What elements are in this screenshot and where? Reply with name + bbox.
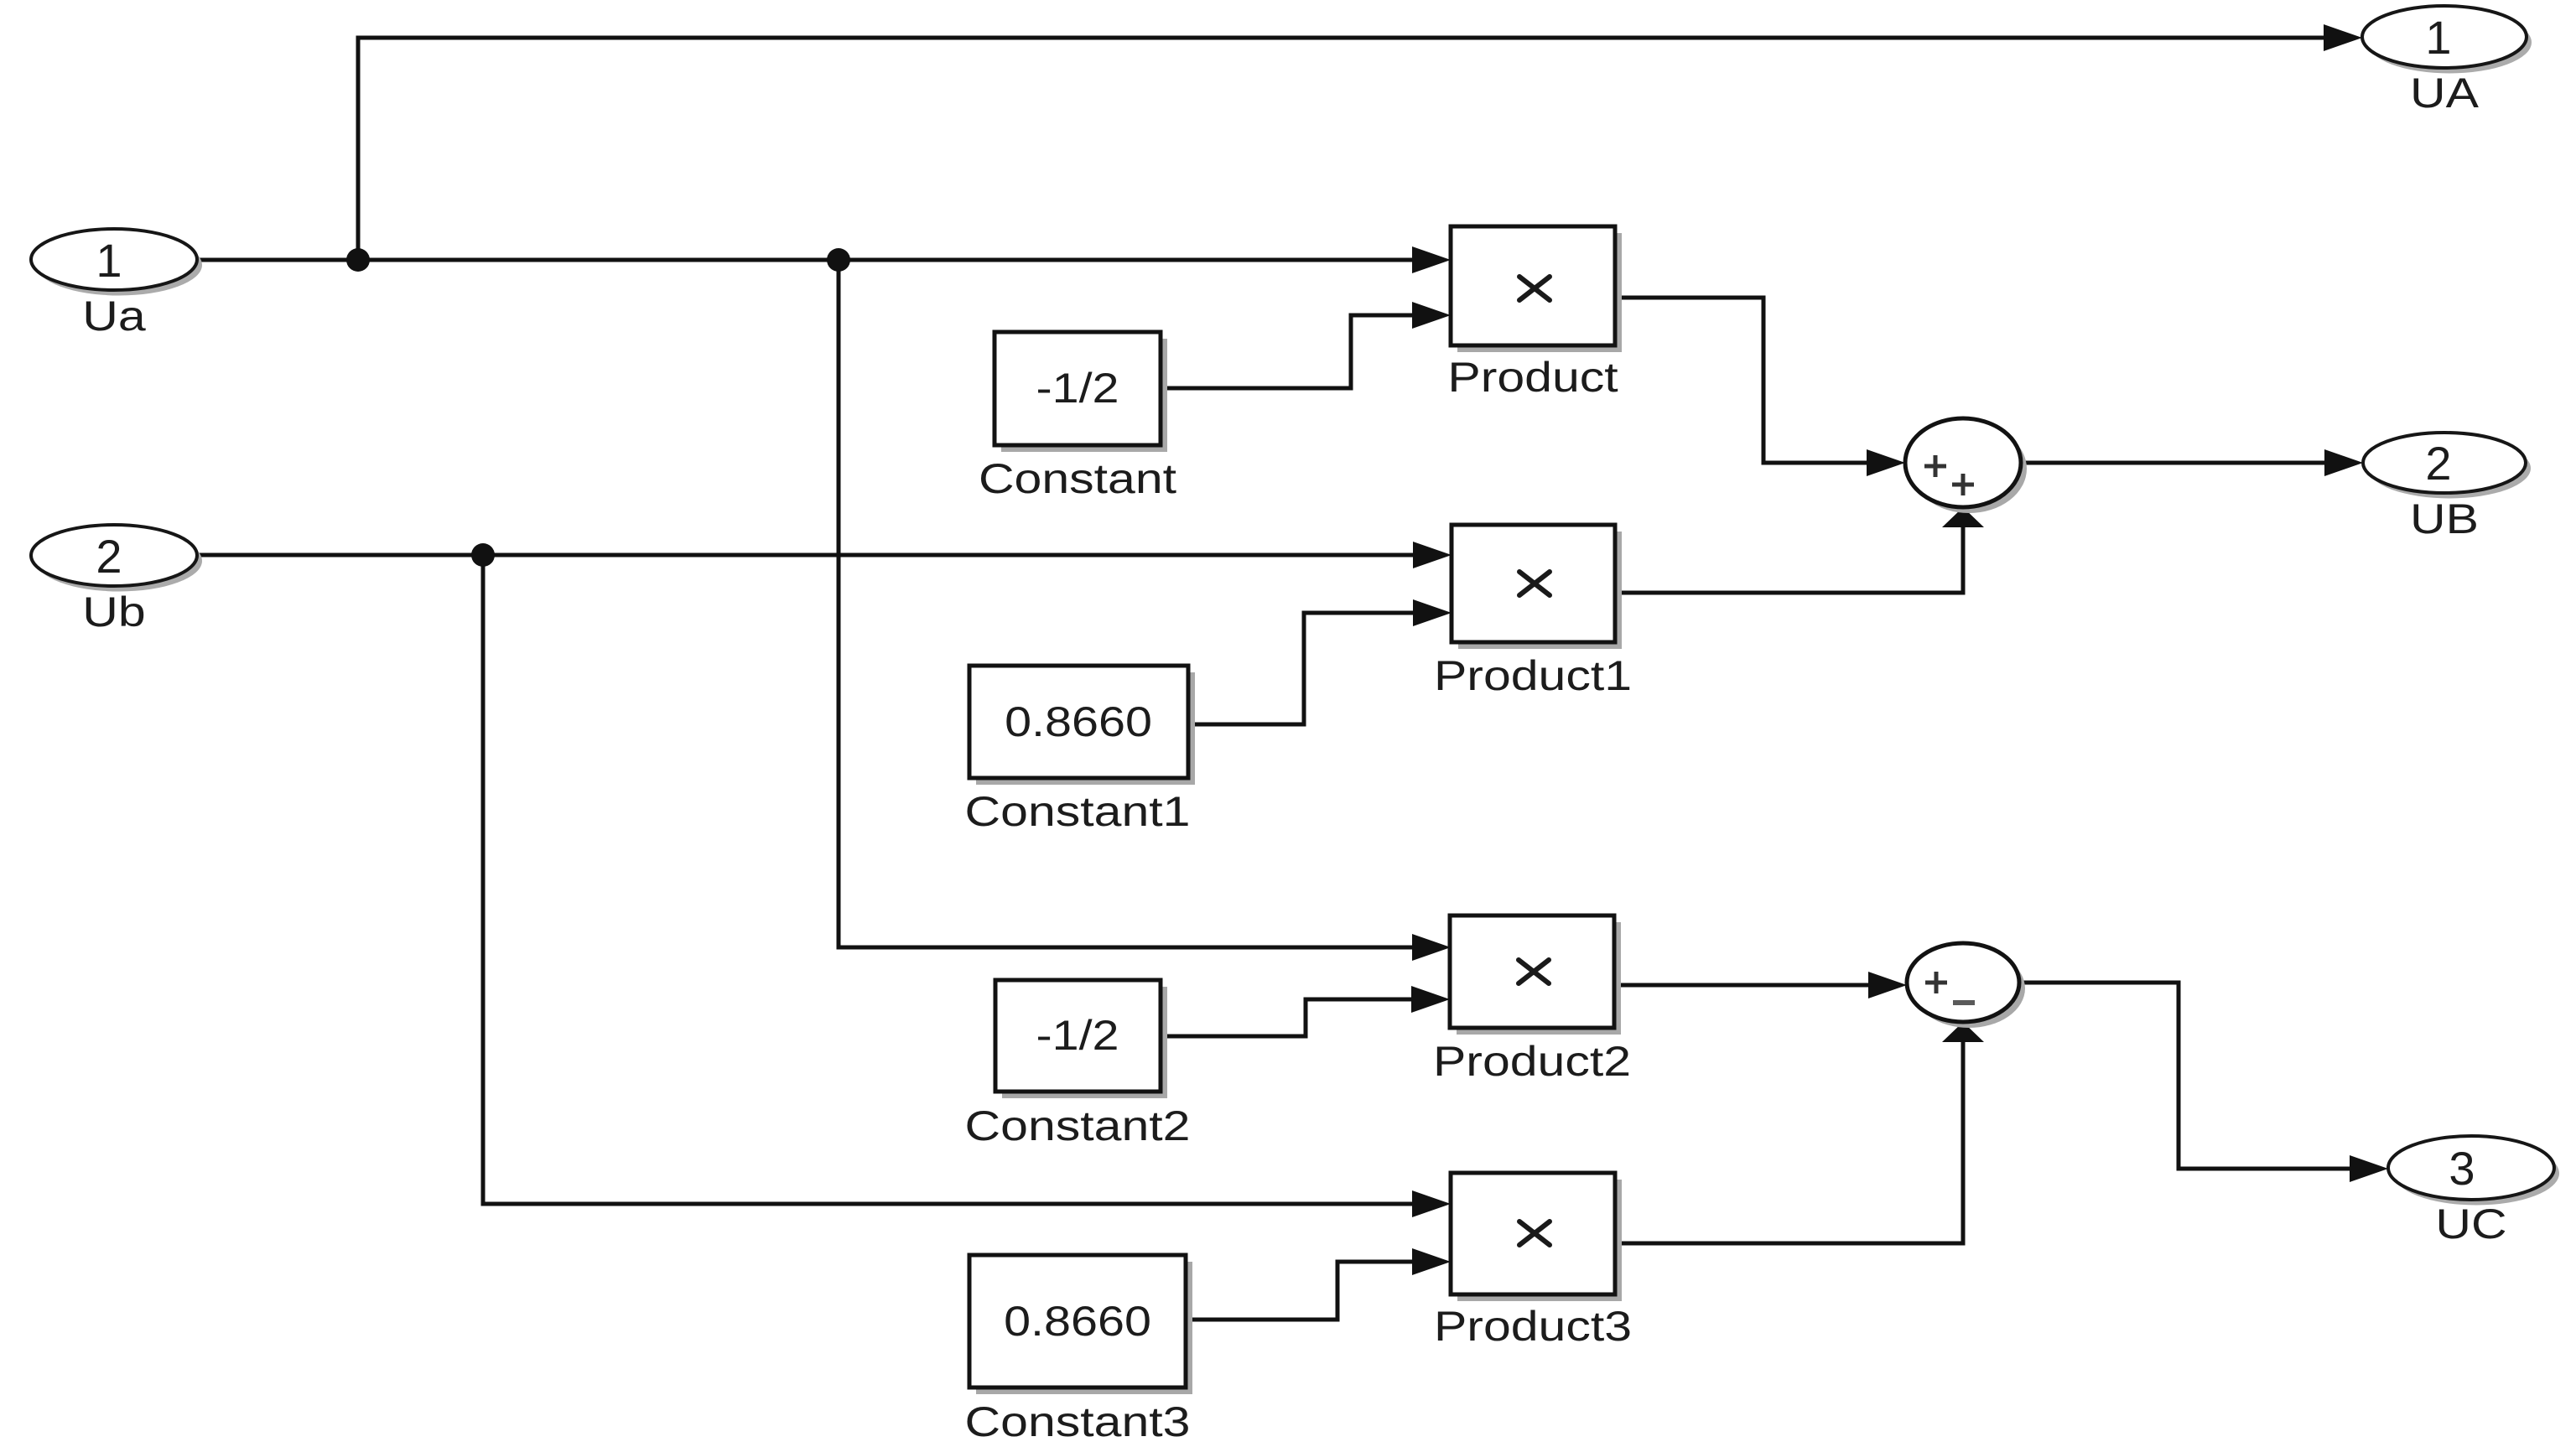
svg-text:Ua: Ua	[82, 292, 146, 340]
svg-text:Constant2: Constant2	[965, 1102, 1191, 1149]
svg-text:Constant1: Constant1	[965, 787, 1191, 835]
svg-text:Product3: Product3	[1434, 1302, 1632, 1350]
svg-text:2: 2	[96, 530, 122, 583]
svg-text:1: 1	[2425, 11, 2451, 64]
svg-text:Constant: Constant	[979, 454, 1176, 502]
svg-text:3: 3	[2449, 1142, 2475, 1195]
svg-text:Product2: Product2	[1433, 1037, 1631, 1085]
svg-text:UC: UC	[2435, 1200, 2506, 1247]
svg-text:1: 1	[96, 234, 122, 287]
svg-text:Ub: Ub	[82, 588, 145, 635]
svg-text:Constant3: Constant3	[965, 1398, 1191, 1445]
svg-text:Product: Product	[1447, 353, 1618, 401]
svg-text:0.8660: 0.8660	[1004, 1298, 1151, 1345]
svg-text:UA: UA	[2410, 69, 2480, 117]
svg-text:0.8660: 0.8660	[1005, 698, 1152, 745]
svg-text:2: 2	[2425, 437, 2451, 490]
svg-text:-1/2: -1/2	[1036, 365, 1119, 412]
svg-text:Product1: Product1	[1434, 651, 1632, 699]
svg-text:-1/2: -1/2	[1036, 1012, 1119, 1059]
svg-text:UB: UB	[2410, 495, 2479, 542]
